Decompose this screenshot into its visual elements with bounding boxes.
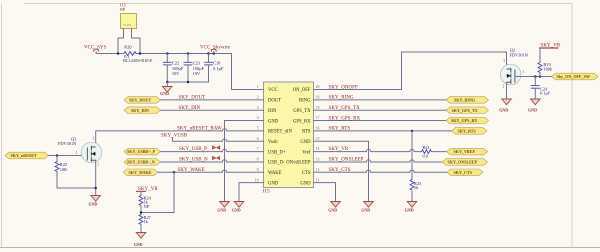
wire pin10 GND to ground — [239, 183, 264, 202]
svg-text:SKY_WAKE: SKY_WAKE — [178, 168, 205, 173]
svg-text:GND: GND — [268, 181, 279, 186]
ground (pin 15) — [361, 202, 373, 213]
svg-text:SKY_USB_N: SKY_USB_N — [179, 157, 208, 162]
svg-text:100k: 100k — [543, 66, 553, 71]
wire pin7 USB_D+ — [161, 149, 264, 151]
port Sky_ON_OFF_SW — [552, 73, 599, 80]
svg-text:GND: GND — [134, 242, 143, 247]
svg-text:GPS_TX: GPS_TX — [293, 109, 311, 114]
node junction gate/R19/C24 — [534, 75, 541, 78]
wire pin17 GPS_RX — [314, 120, 447, 122]
svg-text:GND: GND — [89, 202, 98, 207]
svg-text:1N PN: 1N PN — [123, 24, 131, 27]
svg-text:SKY_GPS_TX: SKY_GPS_TX — [452, 108, 478, 113]
pin names left column — [268, 88, 293, 186]
svg-text:RING: RING — [299, 99, 311, 104]
svg-text:12: 12 — [316, 168, 320, 172]
transistor Q3 — [58, 136, 102, 166]
svg-text:SKY_RTS: SKY_RTS — [458, 129, 477, 134]
svg-text:3: 3 — [93, 136, 95, 140]
ground (R27) — [134, 233, 146, 248]
wire pin16 RTS — [314, 130, 452, 132]
svg-text:SKY_ONOFF: SKY_ONOFF — [329, 85, 359, 90]
svg-text:SKY_ONSLEEP: SKY_ONSLEEP — [329, 157, 364, 162]
svg-text:100µF: 100µF — [193, 66, 205, 71]
port SKY_WAKE — [123, 169, 158, 176]
wire pin15 GND to ground — [314, 141, 369, 201]
svg-text:SKY_DIN: SKY_DIN — [131, 108, 149, 113]
svg-text:10: 10 — [255, 178, 259, 182]
wire pin8 USB_D- — [161, 160, 264, 162]
svg-text:NP: NP — [144, 204, 150, 209]
svg-text:R21: R21 — [423, 145, 430, 150]
power port VCC_SYS — [84, 45, 106, 53]
port SKY_DIN — [124, 107, 161, 114]
port SKY_CTS — [447, 169, 483, 176]
svg-text:1: 1 — [523, 70, 525, 74]
svg-text:RTS: RTS — [302, 130, 311, 135]
svg-text:GND: GND — [300, 181, 311, 186]
svg-text:GND: GND — [160, 91, 169, 96]
svg-text:14: 14 — [316, 147, 320, 151]
svg-text:ON/nSLEEP: ON/nSLEEP — [286, 161, 311, 166]
svg-text:0.1µF: 0.1µF — [540, 91, 551, 96]
port SKY_ONSLEEP — [442, 159, 488, 166]
wire SKY_nRESET to Q3 gate — [49, 155, 88, 157]
svg-text:SKY_VR: SKY_VR — [329, 147, 349, 152]
node junction Q3 source / R22 — [94, 187, 97, 190]
pin numbers left — [255, 85, 259, 182]
wire RTS to R23 — [411, 131, 413, 180]
capacitor C23 — [184, 54, 205, 83]
svg-text:9: 9 — [257, 168, 259, 172]
svg-text:USB_D-: USB_D- — [268, 161, 285, 166]
wire R22 to ground rail — [57, 172, 96, 189]
svg-text:C18: C18 — [213, 60, 220, 65]
svg-text:GND: GND — [300, 140, 311, 145]
svg-text:FDV301N: FDV301N — [58, 141, 77, 146]
svg-text:R20: R20 — [124, 45, 131, 50]
svg-text:GND: GND — [361, 208, 370, 213]
svg-text:18: 18 — [316, 106, 320, 110]
svg-text:GND: GND — [217, 208, 226, 213]
svg-text:RESET_nIN: RESET_nIN — [268, 130, 293, 135]
capacitor C24 — [531, 77, 551, 100]
wire pin18 GPS_TX — [314, 109, 447, 111]
svg-text:SKY_ONSLEEP: SKY_ONSLEEP — [448, 160, 478, 165]
power port SKY_VR (left) — [136, 187, 158, 196]
svg-text:SKY_nRESET: SKY_nRESET — [11, 153, 37, 158]
differential pair marker P — [212, 146, 219, 150]
svg-text:2: 2 — [503, 84, 505, 88]
svg-text:0.1µF: 0.1µF — [213, 66, 224, 71]
wire J13 left leg — [118, 29, 124, 54]
wire pin2 DOUT — [161, 99, 264, 101]
node junction R22 — [56, 154, 59, 157]
power port VCC_Skywire — [200, 45, 230, 53]
svg-text:CTS: CTS — [302, 171, 311, 176]
svg-text:17: 17 — [316, 116, 320, 120]
svg-text:GND: GND — [232, 208, 241, 213]
svg-text:SKY_GPS_RX: SKY_GPS_RX — [329, 116, 361, 121]
svg-text:1: 1 — [76, 151, 78, 155]
resistor R24 — [139, 195, 152, 214]
wire Q3 source — [95, 160, 97, 195]
svg-text:GND: GND — [268, 119, 279, 124]
svg-text:20: 20 — [316, 85, 320, 89]
transistor Q2 — [500, 48, 528, 89]
svg-text:USB_D+: USB_D+ — [268, 150, 286, 155]
svg-text:6: 6 — [257, 137, 259, 141]
wire pin5 RESET from Q3 drain — [96, 129, 264, 147]
svg-text:3: 3 — [503, 59, 505, 63]
wire Q2 gate node — [515, 76, 552, 78]
resistor R19 — [538, 62, 553, 77]
port SKY_RING — [446, 97, 489, 104]
svg-text:SKY_USBD-_N: SKY_USBD-_N — [127, 160, 155, 165]
svg-text:J15: J15 — [263, 190, 271, 195]
svg-text:DIN: DIN — [268, 109, 277, 114]
wire pin4 GND to ground — [225, 121, 264, 202]
svg-text:Sky_ON_OFF_SW: Sky_ON_OFF_SW — [557, 74, 591, 79]
power port SKY_VR (right) — [539, 44, 561, 63]
wire VCC rail to pin 1 — [232, 54, 264, 90]
wire pin9 WAKE — [158, 170, 264, 172]
svg-text:5: 5 — [257, 127, 259, 131]
wire pin13 ON/nSLEEP — [314, 160, 443, 162]
resistor R23 — [410, 180, 421, 202]
svg-text:1k: 1k — [144, 219, 149, 224]
svg-text:3: 3 — [257, 106, 259, 110]
wire cap ground rail — [167, 81, 208, 83]
svg-text:13: 13 — [316, 158, 320, 162]
wire pin6 Vusb — [173, 137, 264, 141]
port SKY_GPS_RX — [446, 117, 489, 124]
IC U1 Skywire module socket J15 body — [263, 82, 314, 195]
resistor R27 — [139, 215, 152, 233]
resistor R20 — [123, 45, 153, 64]
svg-text:0.0: 0.0 — [423, 153, 428, 158]
wire pin12 CTS — [314, 170, 448, 172]
svg-text:SKY_RING: SKY_RING — [454, 97, 476, 102]
svg-text:DOUT: DOUT — [268, 99, 281, 104]
svg-text:2: 2 — [97, 163, 99, 167]
wire pin3 DIN — [161, 109, 264, 111]
svg-text:4: 4 — [257, 116, 259, 120]
svg-text:10K: 10K — [60, 167, 68, 172]
node junction WAKE — [173, 171, 176, 174]
svg-text:10V: 10V — [193, 71, 201, 76]
ground (pin 10) — [232, 202, 244, 213]
svg-text:Vusb: Vusb — [268, 140, 278, 145]
wire R20 to VCC rail — [136, 53, 231, 55]
svg-text:SKY_VUSB: SKY_VUSB — [161, 134, 188, 139]
svg-text:SKY_CTS: SKY_CTS — [329, 168, 351, 173]
svg-text:1k: 1k — [414, 185, 419, 190]
differential pair marker N — [212, 156, 219, 160]
port SKY_RTS — [452, 128, 488, 135]
port SKY_VREF — [447, 148, 488, 155]
svg-text:NP: NP — [120, 7, 126, 12]
wire pin20 ON_OFF to Q2 — [314, 52, 507, 90]
svg-text:C22: C22 — [172, 60, 179, 65]
ground (R23) — [405, 202, 417, 213]
svg-text:ON_OFF: ON_OFF — [293, 88, 311, 93]
svg-text:WAKE: WAKE — [268, 171, 282, 176]
svg-text:1: 1 — [257, 85, 259, 89]
pin numbers right — [316, 85, 320, 182]
svg-text:GND: GND — [328, 208, 337, 213]
port SKY_DOUT — [124, 97, 161, 104]
ground (C24) — [528, 99, 540, 112]
svg-text:8: 8 — [257, 158, 259, 162]
wire pin14 Vref to R21 — [314, 149, 422, 151]
wire pin11 GND to ground — [314, 183, 336, 202]
svg-text:GND: GND — [405, 208, 414, 213]
node junctions on VCC rail — [117, 52, 215, 55]
svg-text:SKY_GPS_TX: SKY_GPS_TX — [329, 106, 361, 111]
svg-text:11: 11 — [316, 178, 320, 182]
svg-text:VCC: VCC — [268, 88, 278, 93]
svg-text:7: 7 — [257, 147, 259, 151]
svg-text:VCC_SYS: VCC_SYS — [84, 45, 106, 50]
wire WAKE pulldown link — [141, 172, 174, 212]
svg-text:SKY_WAKE: SKY_WAKE — [129, 170, 152, 175]
svg-text:SKY_DIN: SKY_DIN — [179, 106, 201, 111]
ground (pin 4) — [217, 202, 229, 213]
svg-text:2: 2 — [257, 95, 259, 99]
svg-text:FDV301N: FDV301N — [510, 52, 529, 57]
svg-text:GND: GND — [499, 107, 508, 112]
resistor R22 — [55, 156, 68, 172]
svg-text:SKY_USB_P: SKY_USB_P — [179, 147, 207, 152]
node junctions cap rail — [166, 81, 189, 84]
svg-text:RL1220S-R10-F: RL1220S-R10-F — [123, 58, 153, 63]
svg-text:GND: GND — [528, 107, 537, 112]
wire pin19 RING — [314, 99, 447, 101]
ground (Q3) — [89, 196, 101, 207]
connector J13 — [120, 3, 137, 29]
svg-text:Vref: Vref — [302, 150, 311, 155]
svg-text:SKY_DOUT: SKY_DOUT — [179, 96, 206, 101]
resistor R21 — [422, 145, 447, 159]
svg-text:SKY_GPS_RX: SKY_GPS_RX — [451, 118, 477, 123]
wire Q2 source to ground — [506, 82, 508, 99]
svg-text:SKY_VREF: SKY_VREF — [454, 149, 476, 154]
wire VCC_SYS to R20 — [96, 53, 123, 55]
ground (caps) — [160, 82, 172, 96]
port SKY_GPS_TX — [446, 107, 489, 114]
svg-text:SKY_RING: SKY_RING — [329, 96, 354, 101]
port SKY_USBD-_N — [124, 159, 161, 166]
ground (Q2) — [499, 99, 511, 112]
pin names right column — [286, 88, 311, 186]
svg-text:16: 16 — [316, 127, 320, 131]
svg-text:19: 19 — [316, 95, 320, 99]
node junction R24/R27 — [140, 211, 143, 214]
svg-text:SKY_USBD+_P: SKY_USBD+_P — [127, 149, 156, 154]
svg-text:100µF: 100µF — [172, 66, 184, 71]
svg-text:SKY_DOUT: SKY_DOUT — [129, 97, 152, 102]
wire J13 right leg — [132, 29, 141, 54]
svg-text:10V: 10V — [172, 71, 180, 76]
capacitor C22 — [163, 54, 184, 83]
svg-text:GPS_RX: GPS_RX — [293, 119, 311, 124]
svg-text:C23: C23 — [193, 60, 200, 65]
svg-text:15: 15 — [316, 137, 320, 141]
node junction RTS/R23 — [411, 130, 414, 133]
svg-text:SKY_RTS: SKY_RTS — [329, 127, 351, 132]
ground (pin 11) — [328, 202, 340, 213]
port SKY_nRESET — [5, 152, 49, 159]
svg-text:SKY_CTS: SKY_CTS — [454, 170, 473, 175]
svg-text:SKY_nRESET_RAW: SKY_nRESET_RAW — [177, 127, 222, 132]
port SKY_USBD+_P — [124, 148, 161, 155]
capacitor C18 — [204, 54, 224, 83]
